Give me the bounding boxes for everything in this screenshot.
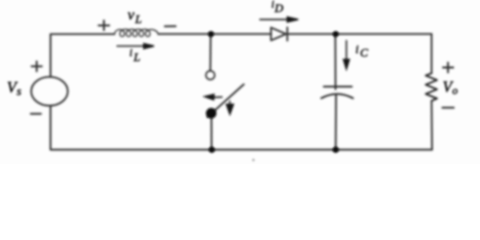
- switch motion arrow down: [229, 101, 231, 106]
- wire switch branch lower: [210, 117, 212, 150]
- wire left rail lower: [50, 106, 52, 150]
- current arrow iD: [259, 19, 288, 21]
- voltage source Vs circle: [31, 77, 68, 106]
- plus sign vL: [99, 21, 110, 31]
- wire capacitor branch upper: [334, 34, 336, 89]
- svg-text:iL: iL: [129, 47, 140, 64]
- resistor R load zigzag: [426, 73, 437, 101]
- current arrow iL: [117, 45, 145, 47]
- wire bottom horizontal: [51, 149, 432, 151]
- svg-text:Vo: Vo: [443, 79, 459, 97]
- svg-text:iD: iD: [271, 0, 283, 15]
- capacitor C top plate: [324, 86, 352, 88]
- wire right rail upper: [431, 34, 433, 73]
- current arrow iC downward: [345, 40, 347, 60]
- wire right rail lower: [431, 101, 433, 150]
- wire top-right horizontal: [287, 33, 431, 35]
- diode D1 triangle: [271, 28, 286, 41]
- plus sign Vo: [443, 63, 453, 73]
- wire top-left corner: [51, 34, 115, 77]
- switch pivot dot: [206, 108, 217, 119]
- wire top-mid horizontal: [158, 33, 271, 35]
- inductor L coil: [114, 29, 158, 36]
- node junction dot bottom switch: [209, 147, 215, 153]
- minus sign Vs: [31, 113, 41, 115]
- capacitor C curved bottom plate: [321, 94, 353, 98]
- svg-text:vL: vL: [128, 7, 142, 26]
- node junction dot top switch: [208, 31, 214, 37]
- svg-text:Vs: Vs: [7, 79, 22, 98]
- diode D1 cathode bar: [286, 27, 288, 40]
- switch arm line: [208, 84, 244, 117]
- wire capacitor branch lower: [335, 95, 337, 149]
- node junction dot top capacitor/diode: [333, 31, 339, 37]
- minus sign vL: [165, 25, 176, 27]
- switch motion arrow left: [211, 96, 223, 99]
- plus sign Vs: [32, 61, 42, 71]
- minus sign Vo: [442, 107, 453, 109]
- svg-text:iC: iC: [355, 42, 369, 60]
- wire switch branch upper: [209, 34, 211, 71]
- stray mark artifact: [252, 159, 254, 161]
- switch open terminal circle: [206, 71, 215, 80]
- node junction dot bottom capacitor: [333, 147, 339, 153]
